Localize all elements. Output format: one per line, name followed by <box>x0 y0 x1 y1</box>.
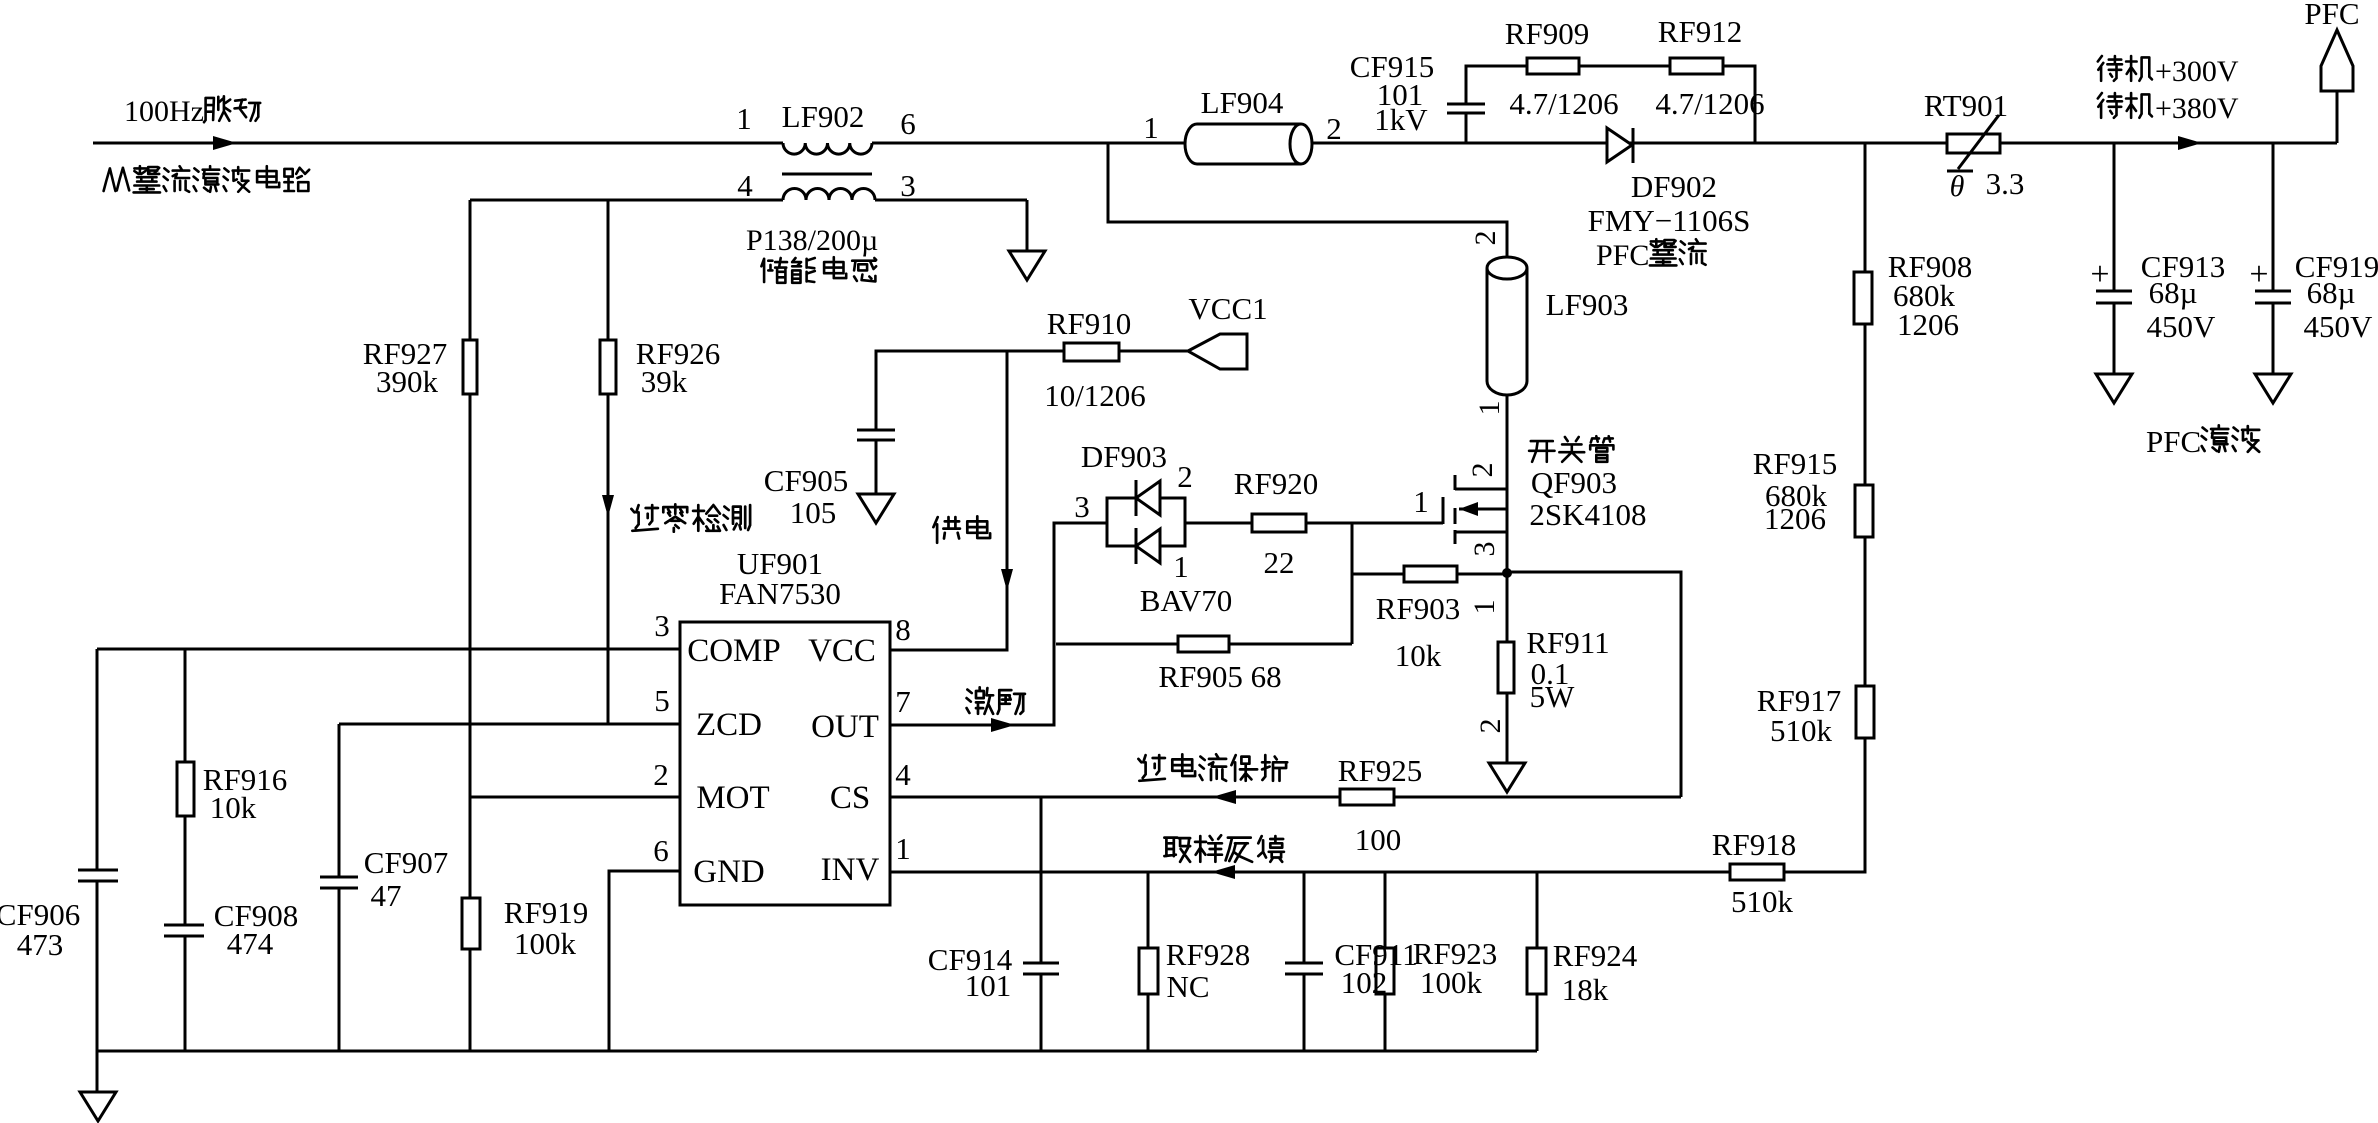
svg-text:RF905 68: RF905 68 <box>1158 659 1281 694</box>
svg-text:100: 100 <box>1355 822 1402 857</box>
svg-text:1206: 1206 <box>1764 501 1826 536</box>
svg-text:1: 1 <box>1413 484 1429 519</box>
svg-text:CF905: CF905 <box>764 463 848 498</box>
svg-text:100Hz: 100Hz <box>124 95 204 128</box>
svg-text:+: + <box>2249 256 2268 293</box>
svg-text:5: 5 <box>654 683 670 718</box>
svg-text:1: 1 <box>895 831 911 866</box>
svg-text:1: 1 <box>1473 401 1506 416</box>
svg-text:2: 2 <box>1466 463 1499 478</box>
svg-text:PFC: PFC <box>2304 0 2359 31</box>
svg-text:P138/200µ: P138/200µ <box>746 224 878 257</box>
svg-text:θ: θ <box>1950 170 1965 203</box>
svg-text:39k: 39k <box>641 364 688 399</box>
svg-text:RF915: RF915 <box>1753 446 1837 481</box>
svg-text:FAN7530: FAN7530 <box>719 576 841 611</box>
svg-text:4: 4 <box>895 757 911 792</box>
svg-text:2: 2 <box>1177 459 1193 494</box>
svg-text:LF902: LF902 <box>782 99 865 134</box>
svg-text:RF912: RF912 <box>1658 14 1742 49</box>
svg-text:4.7/1206: 4.7/1206 <box>1655 86 1764 121</box>
svg-text:RF903: RF903 <box>1376 591 1460 626</box>
svg-text:ZCD: ZCD <box>696 707 762 743</box>
svg-text:RF925: RF925 <box>1338 753 1422 788</box>
svg-text:100k: 100k <box>514 926 577 961</box>
svg-text:LF903: LF903 <box>1546 287 1629 322</box>
svg-text:RF920: RF920 <box>1234 466 1318 501</box>
svg-text:RF918: RF918 <box>1712 827 1796 862</box>
svg-text:1kV: 1kV <box>1374 102 1428 137</box>
svg-text:PFC: PFC <box>1596 239 1649 272</box>
svg-text:OUT: OUT <box>811 709 879 745</box>
svg-text:4.7/1206: 4.7/1206 <box>1509 86 1618 121</box>
svg-text:102: 102 <box>1341 965 1388 1000</box>
svg-text:1: 1 <box>1173 549 1189 584</box>
svg-text:+380V: +380V <box>2155 92 2239 125</box>
svg-text:105: 105 <box>790 495 837 530</box>
svg-text:1: 1 <box>1468 600 1501 615</box>
svg-text:68µ: 68µ <box>2307 275 2356 310</box>
svg-text:BAV70: BAV70 <box>1140 583 1232 618</box>
svg-text:INV: INV <box>821 852 880 888</box>
svg-text:+: + <box>2090 256 2109 293</box>
svg-text:2: 2 <box>1326 111 1342 146</box>
svg-text:10k: 10k <box>1395 638 1442 673</box>
svg-text:474: 474 <box>227 926 274 961</box>
svg-text:RF919: RF919 <box>504 895 588 930</box>
svg-text:RT901: RT901 <box>1924 88 2008 123</box>
svg-text:RF924: RF924 <box>1553 938 1638 973</box>
svg-text:RF911: RF911 <box>1526 625 1609 660</box>
svg-text:+300V: +300V <box>2155 55 2239 88</box>
svg-text:COMP: COMP <box>687 633 781 669</box>
svg-text:3: 3 <box>654 608 670 643</box>
svg-text:1: 1 <box>736 101 752 136</box>
svg-text:DF902: DF902 <box>1631 169 1717 204</box>
svg-text:3: 3 <box>900 168 916 203</box>
svg-text:VCC: VCC <box>808 633 876 669</box>
svg-text:CF907: CF907 <box>364 845 448 880</box>
svg-text:68µ: 68µ <box>2149 275 2198 310</box>
svg-text:1: 1 <box>1143 110 1159 145</box>
svg-text:6: 6 <box>900 106 916 141</box>
svg-text:8: 8 <box>895 612 911 647</box>
svg-text:CS: CS <box>830 780 870 816</box>
svg-text:510k: 510k <box>1770 713 1833 748</box>
svg-text:390k: 390k <box>376 364 439 399</box>
svg-text:7: 7 <box>895 684 911 719</box>
svg-text:MOT: MOT <box>696 780 769 816</box>
svg-text:47: 47 <box>371 878 402 913</box>
svg-text:5W: 5W <box>1530 679 1576 714</box>
svg-text:DF903: DF903 <box>1081 439 1167 474</box>
svg-text:450V: 450V <box>2147 309 2217 344</box>
svg-text:2: 2 <box>1469 231 1502 246</box>
svg-text:18k: 18k <box>1562 972 1609 1007</box>
svg-text:PFC: PFC <box>2146 424 2201 459</box>
svg-text:GND: GND <box>693 854 765 890</box>
svg-text:1206: 1206 <box>1897 307 1959 342</box>
svg-text:22: 22 <box>1264 545 1295 580</box>
svg-text:VCC1: VCC1 <box>1188 291 1267 326</box>
svg-text:RF928: RF928 <box>1166 937 1250 972</box>
svg-text:3.3: 3.3 <box>1986 166 2025 201</box>
svg-text:NC: NC <box>1166 969 1209 1004</box>
svg-text:RF910: RF910 <box>1047 306 1131 341</box>
svg-text:2: 2 <box>653 757 669 792</box>
svg-text:2: 2 <box>1474 719 1507 734</box>
svg-text:3: 3 <box>1468 542 1501 557</box>
svg-text:QF903: QF903 <box>1531 465 1617 500</box>
svg-text:RF909: RF909 <box>1505 16 1589 51</box>
svg-text:101: 101 <box>965 968 1012 1003</box>
svg-text:450V: 450V <box>2304 309 2374 344</box>
svg-text:3: 3 <box>1074 489 1090 524</box>
svg-text:4: 4 <box>737 168 753 203</box>
svg-text:FMY−1106S: FMY−1106S <box>1588 203 1751 238</box>
svg-text:6: 6 <box>653 833 669 868</box>
svg-text:510k: 510k <box>1731 884 1794 919</box>
svg-text:10k: 10k <box>210 790 257 825</box>
svg-text:2SK4108: 2SK4108 <box>1529 497 1646 532</box>
svg-text:100k: 100k <box>1420 965 1483 1000</box>
svg-text:LF904: LF904 <box>1201 85 1284 120</box>
svg-text:10/1206: 10/1206 <box>1044 378 1146 413</box>
svg-text:473: 473 <box>17 927 64 962</box>
